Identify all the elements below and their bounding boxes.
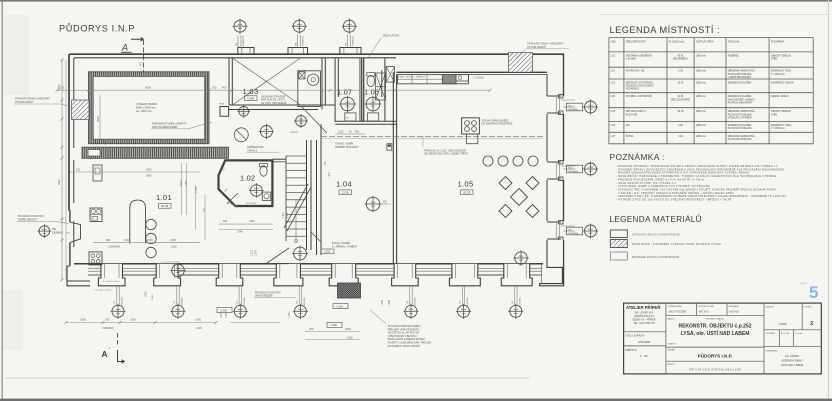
svg-text:3530: 3530 xyxy=(58,179,61,185)
svg-text:1.02: 1.02 xyxy=(240,174,255,183)
svg-text:400: 400 xyxy=(222,86,227,90)
svg-text:750: 750 xyxy=(114,301,116,304)
new hatched wall between 1.07/1.06 xyxy=(360,58,364,121)
svg-text:1500(845): 1500(845) xyxy=(568,233,578,235)
svg-text:- POTRUBÍ Z PCE OD 100 VYÚSTÍ: - POTRUBÍ Z PCE OD 100 VYÚSTÍ DO VNĚJŠÍH… xyxy=(616,199,731,202)
svg-text:201: 201 xyxy=(140,61,143,66)
svg-text:3.080: 3.080 xyxy=(152,294,154,300)
svg-text:VYPRACOVAL: VYPRACOVAL xyxy=(667,305,682,308)
svg-text:TVÁRNICE: TVÁRNICE xyxy=(352,35,355,46)
vertical dim 3000 left of pool xyxy=(99,95,101,140)
stove island with 4 burners xyxy=(462,118,480,134)
svg-text:5.30: 5.30 xyxy=(678,71,683,73)
svg-text:3000: 3000 xyxy=(96,116,100,122)
1.06 shelving X rect xyxy=(376,73,386,100)
svg-text:KUCHYNĚ: KUCHYNĚ xyxy=(626,113,638,116)
title block outer box xyxy=(624,303,822,374)
staircase arrow xyxy=(295,200,297,243)
vertical dim lines mid 1.01 xyxy=(181,163,183,215)
pilaster x=156.2 xyxy=(154,264,181,286)
svg-text:2.350: 2.350 xyxy=(287,212,289,218)
kitchen counter band xyxy=(398,75,469,84)
pilaster x=218.7 xyxy=(216,264,243,286)
svg-text:2860 mm: 2860 mm xyxy=(696,55,706,57)
svg-text:A SAUNA: A SAUNA xyxy=(626,58,637,61)
svg-text:750: 750 xyxy=(105,318,110,322)
svg-text:1.200: 1.200 xyxy=(289,312,291,318)
svg-text:1000: 1000 xyxy=(221,312,223,318)
dim 150 2830 2600 xyxy=(70,171,200,173)
dashed beam line xyxy=(321,135,543,137)
svg-text:OBJEKT: OBJEKT xyxy=(667,343,676,345)
room 1.02 walls xyxy=(219,160,273,206)
svg-text:POUŽITÝ Z LOMOVÉHO KAM. TRO: POUŽITÝ Z LOMOVÉHO KAM. TROKULE xyxy=(388,342,432,345)
svg-text:1054/1999: 1054/1999 xyxy=(638,340,651,344)
1.01 stove unit xyxy=(89,252,102,265)
svg-text:DŘEVĚNÁ LAMINÁTOVÁ: DŘEVĚNÁ LAMINÁTOVÁ xyxy=(728,135,755,138)
svg-text:1.07: 1.07 xyxy=(610,135,615,138)
svg-text:17.0/1600: 17.0/1600 xyxy=(473,76,484,79)
svg-text:PLOVOUCÍ PODLAHA: PLOVOUCÍ PODLAHA xyxy=(728,138,752,141)
svg-text:1.01: 1.01 xyxy=(610,54,615,57)
svg-text:STAVEBNÍK: STAVEBNÍK xyxy=(766,350,778,353)
left margin scan shade xyxy=(3,15,29,95)
outer wall bottom-left corner xyxy=(67,266,90,286)
svg-text:LEGENDA MÍSTNOSTÍ :: LEGENDA MÍSTNOSTÍ : xyxy=(610,25,721,35)
material swatch bourane xyxy=(610,252,627,260)
1.01 fridge xyxy=(93,165,102,181)
sheet right faint border xyxy=(828,0,830,401)
svg-text:ŠATNA: ŠATNA xyxy=(626,135,634,138)
svg-text:KERAMICKÁ DLAŽBA: KERAMICKÁ DLAŽBA xyxy=(728,95,752,98)
elevation boxes xyxy=(333,304,348,309)
svg-text:1.04: 1.04 xyxy=(336,180,352,189)
svg-text:1450: 1450 xyxy=(195,318,201,322)
svg-text:5000: 5000 xyxy=(145,86,151,90)
svg-text:5: 5 xyxy=(809,283,818,302)
svg-text:OKNO OBEZDÍT: OKNO OBEZDÍT xyxy=(255,295,274,298)
title block grid xyxy=(624,303,822,374)
svg-text:150: 150 xyxy=(76,168,81,171)
svg-text:1.07: 1.07 xyxy=(337,88,352,97)
svg-text:PŘELOMIT HORNÍ PODESTU,: PŘELOMIT HORNÍ PODESTU, xyxy=(388,328,420,331)
svg-text:VE STÁV. PROVEDENÍ: VE STÁV. PROVEDENÍ xyxy=(261,102,287,105)
svg-text:VYBETONOVAT J BETONU,: VYBETONOVAT J BETONU, xyxy=(388,335,418,338)
svg-text:2100: 2100 xyxy=(196,326,202,330)
svg-text:STUPEŇ: STUPEŇ xyxy=(766,332,775,335)
sheet faint top-right rule xyxy=(600,14,829,16)
svg-text:1.03: 1.03 xyxy=(243,87,259,96)
svg-text:+PODLAH. VYTÁPĚNÍ: +PODLAH. VYTÁPĚNÍ xyxy=(728,116,752,119)
bottom leader target x=118 xyxy=(116,286,118,306)
svg-text:OBSAH: OBSAH xyxy=(667,349,675,352)
staircase break line xyxy=(284,184,308,228)
svg-text:1500(845): 1500(845) xyxy=(568,109,578,111)
pilaster x=451.9 xyxy=(449,264,480,286)
window bricked-up hatch top right xyxy=(509,53,533,73)
svg-text:1/2000: 1/2000 xyxy=(779,323,787,326)
svg-text:VODÁRNOU: VODÁRNOU xyxy=(626,88,640,91)
outer wall left entry splayed opening xyxy=(70,222,81,242)
svg-text:DATUM: DATUM xyxy=(766,306,774,309)
svg-text:NOVÉ ZDIVO - Z POROBET. T: NOVÉ ZDIVO - Z POROBET. TVÁRNIC YTONG NA… xyxy=(632,243,721,246)
door swing small near stairs xyxy=(311,232,321,242)
svg-text:ING.VLK: ING.VLK xyxy=(699,311,709,314)
svg-text:1.03: 1.03 xyxy=(610,82,615,85)
bottom-right corner block xyxy=(540,240,564,286)
material swatch nove xyxy=(610,240,627,248)
svg-text:3.04: 3.04 xyxy=(678,136,683,138)
window target in bottom wall xyxy=(170,263,186,279)
svg-text:1300(845): 1300(845) xyxy=(304,297,306,306)
svg-text:2600 mm: 2600 mm xyxy=(696,111,706,113)
wall below 1.07/1.06 xyxy=(335,120,396,122)
svg-text:POČ. A4: POČ. A4 xyxy=(781,332,790,335)
svg-text:SVĚTLÁ VÝŠKA: SVĚTLÁ VÝŠKA xyxy=(696,41,714,44)
1.02 door swing xyxy=(227,193,238,204)
svg-text:1300(845): 1300(845) xyxy=(467,297,469,306)
svg-text:OBVODY OBKLAD: OBVODY OBKLAD xyxy=(771,110,791,113)
right wall window bay y=222 xyxy=(547,222,561,239)
svg-text:VESTAVBA S BAZÉNEM: VESTAVBA S BAZÉNEM xyxy=(626,54,652,57)
svg-text:1300(840): 1300(840) xyxy=(102,326,114,330)
svg-text:1.210: 1.210 xyxy=(251,249,254,256)
stove gray block xyxy=(442,75,456,84)
svg-text:2.50: 2.50 xyxy=(678,125,683,127)
svg-text:81.48: 81.48 xyxy=(161,204,168,208)
1.04 entry door swing xyxy=(266,248,289,264)
svg-text:1300(845): 1300(845) xyxy=(415,297,417,306)
bottom leader target x=411 xyxy=(409,286,411,306)
dim 1450 2100 xyxy=(165,242,200,244)
pilaster x=100.9 xyxy=(98,264,125,286)
1.06 wc bowl xyxy=(367,75,375,86)
1.03 equipment targets xyxy=(237,105,250,118)
svg-text:1300(845): 1300(845) xyxy=(52,233,63,235)
svg-text:750: 750 xyxy=(512,301,514,304)
svg-text:2830: 2830 xyxy=(146,168,152,171)
svg-text:43.41: 43.41 xyxy=(678,55,685,57)
svg-text:KERAMICKÝ SOKL: KERAMICKÝ SOKL xyxy=(771,124,792,127)
1.01 circles (stools) xyxy=(146,219,156,229)
left outer vertical dim line xyxy=(61,60,63,280)
svg-text:10.16: 10.16 xyxy=(678,83,685,85)
svg-text:1650: 1650 xyxy=(249,220,255,223)
svg-text:-1.380: -1.380 xyxy=(336,305,343,308)
svg-text:ZALOŽIT DO M., API ROZ VM.: ZALOŽIT DO M., API ROZ VM. xyxy=(388,332,420,335)
svg-text:STP. Ú. P.P. 3.20.21.75.76.77: STP. Ú. P.P. 3.20.21.75.76.77.82. 149, k… xyxy=(689,369,741,372)
wall 1.02 to staircase xyxy=(272,158,286,160)
svg-text:-1.380: -1.380 xyxy=(330,324,337,327)
pilaster x=503.8 xyxy=(501,264,532,286)
svg-text:1300(845): 1300(845) xyxy=(182,297,184,306)
svg-text:1.01: 1.01 xyxy=(156,193,172,202)
svg-text:12.08: 12.08 xyxy=(342,191,349,195)
bottom dim chain door xyxy=(230,322,280,324)
svg-text:VÝKR.Č: VÝKR.Č xyxy=(804,306,813,309)
svg-text:2800 mm: 2800 mm xyxy=(696,83,706,85)
right window target y=231 xyxy=(564,230,576,232)
svg-text:1300(845): 1300(845) xyxy=(122,297,124,306)
room 1.07 left wall xyxy=(334,58,336,122)
1.06 floor target xyxy=(365,96,382,113)
svg-text:JIZERSKÁ 2898/7: JIZERSKÁ 2898/7 xyxy=(781,359,803,363)
svg-text:2860 mm: 2860 mm xyxy=(696,125,706,127)
svg-text:DB VĚNCE NAD STÁV. KLENBY TŘÍD: DB VĚNCE NAD STÁV. KLENBY TŘÍDIT xyxy=(424,153,468,156)
svg-text:KOUPELNA + WC: KOUPELNA + WC xyxy=(626,70,645,73)
svg-text:1.05: 1.05 xyxy=(458,180,474,189)
svg-text:750: 750 xyxy=(460,301,462,304)
svg-text:STĚN: STĚN xyxy=(771,58,778,61)
svg-text:PODLAHA: PODLAHA xyxy=(728,41,740,44)
svg-text:2000: 2000 xyxy=(345,327,351,331)
svg-text:V = 1500 mm: V = 1500 mm xyxy=(771,128,785,130)
1.03 door pillar xyxy=(220,107,229,117)
svg-text:5 x 1.614 / 1.30 m: 5 x 1.614 / 1.30 m xyxy=(94,290,112,292)
svg-text:1970: 1970 xyxy=(58,84,61,90)
svg-text:2 x 1.6.14 / 1.75 m: 2 x 1.6.14 / 1.75 m xyxy=(161,261,179,263)
1.02 wc bowl xyxy=(260,166,267,176)
room 1.03 bottom wall xyxy=(229,104,335,106)
svg-text:TECHNOLOGIÍ A DOMÁCÍ: TECHNOLOGIÍ A DOMÁCÍ xyxy=(626,85,654,88)
sheet left border xyxy=(1,0,3,401)
svg-text:PŮDORYS I.N.P.: PŮDORYS I.N.P. xyxy=(698,352,733,359)
svg-text:REKONSTR. OBJEKTU č.p.252: REKONSTR. OBJEKTU č.p.252 xyxy=(678,323,751,329)
svg-text:62.78: 62.78 xyxy=(678,111,685,113)
svg-text:2600: 2600 xyxy=(146,175,152,178)
svg-text:3.380: 3.380 xyxy=(247,96,254,100)
svg-text:1.06: 1.06 xyxy=(610,124,615,127)
svg-text:PŮDORYS I.N.P: PŮDORYS I.N.P xyxy=(59,23,135,34)
svg-text:5000 x 3000 mm: 5000 x 3000 mm xyxy=(136,105,155,109)
svg-text:750: 750 xyxy=(237,301,239,304)
svg-text:OZN: OZN xyxy=(611,41,616,44)
svg-text:7240-6.2: 7240-6.2 xyxy=(247,149,257,152)
svg-text:1 : 50: 1 : 50 xyxy=(640,354,648,358)
svg-text:2: 2 xyxy=(810,321,813,327)
1.02 floor target xyxy=(249,183,264,198)
svg-text:BEZ BAZÉNU: BEZ BAZÉNU xyxy=(673,58,688,61)
svg-text:62.78: 62.78 xyxy=(463,191,470,195)
svg-text:OBÝVACÍ POKOJ +: OBÝVACÍ POKOJ + xyxy=(626,110,647,113)
chimney crosshatch block at bottom wall xyxy=(338,283,361,298)
svg-text:+ DRES PROVEDENÍ: + DRES PROVEDENÍ xyxy=(728,76,751,79)
svg-text:MĚŘÍTKO: MĚŘÍTKO xyxy=(626,349,637,352)
svg-text:A: A xyxy=(121,43,128,53)
svg-text:DŘEVĚNÁ LAMINÁTOVÁ: DŘEVĚNÁ LAMINÁTOVÁ xyxy=(728,110,755,113)
svg-text:1.970: 1.970 xyxy=(255,249,258,256)
svg-text:PLOVOUCÍ PODLAHA: PLOVOUCÍ PODLAHA xyxy=(728,73,752,76)
svg-text:KERAMICKÁ DLAŽBA: KERAMICKÁ DLAŽBA xyxy=(728,124,752,127)
shaft between 1.06 and 1.05 xyxy=(386,67,394,83)
svg-text:150: 150 xyxy=(104,140,107,145)
svg-text:ÚČEL MÍSTNOSTI: ÚČEL MÍSTNOSTI xyxy=(626,41,646,44)
svg-text:WC: WC xyxy=(626,125,630,127)
svg-text:1120: 1120 xyxy=(338,131,344,134)
svg-text:POZNÁMKA: POZNÁMKA xyxy=(771,41,785,44)
dining table diamonds xyxy=(511,189,528,206)
svg-text:KERAMICKÝ SOKL: KERAMICKÝ SOKL xyxy=(771,70,792,73)
svg-text:TEL. 0412/ 588 878: TEL. 0412/ 588 878 xyxy=(633,322,655,325)
svg-text:SCHVÁLIL: SCHVÁLIL xyxy=(728,305,739,308)
right window target y=107 xyxy=(564,106,576,108)
svg-text:2540: 2540 xyxy=(237,230,243,234)
svg-text:1.210: 1.210 xyxy=(283,212,285,218)
sink block xyxy=(456,75,469,81)
svg-text:PRŮBĚH SPOLEČNÝ: PRŮBĚH SPOLEČNÝ xyxy=(335,146,359,149)
bottom dim chain right xyxy=(305,331,360,333)
bottom dim chain left xyxy=(66,322,216,324)
svg-text:1.050: 1.050 xyxy=(226,312,228,318)
svg-text:PLOVOUCÍ PODLAHA: PLOVOUCÍ PODLAHA xyxy=(728,127,752,130)
svg-text:Jan VÁVRA: Jan VÁVRA xyxy=(785,354,799,358)
svg-text:V = 2000 mm: V = 2000 mm xyxy=(771,74,785,76)
svg-text:2860 mm: 2860 mm xyxy=(696,71,706,73)
svg-text:ATELIER PŘÍPEŘ: ATELIER PŘÍPEŘ xyxy=(626,305,660,310)
svg-text:1450: 1450 xyxy=(170,238,176,242)
room 1.03 right wall xyxy=(321,58,323,110)
svg-text:OBVODY OBKLAD: OBVODY OBKLAD xyxy=(771,54,791,57)
svg-text:TVÁRNICE: TVÁRNICE xyxy=(242,35,245,46)
pool hatched walls xyxy=(89,72,210,144)
bricked-up window hatch left xyxy=(72,100,90,119)
svg-text:1.500: 1.500 xyxy=(388,299,391,306)
svg-text:DŘEVĚNÁ LAMINÁTOVÁ: DŘEVĚNÁ LAMINÁTOVÁ xyxy=(728,70,755,73)
electrical box xyxy=(387,144,392,151)
room 1.03 left wall xyxy=(228,58,230,105)
svg-text:KERAM. SOKLÍK: KERAM. SOKLÍK xyxy=(771,95,789,98)
svg-text:S 1 PŘESKL. VYMĚNIT: S 1 PŘESKL. VYMĚNIT xyxy=(332,245,358,248)
1.07 toilet xyxy=(345,113,356,121)
svg-text:900: 900 xyxy=(106,238,111,242)
svg-text:BOURANÉ ZDIVO A KONSTRUKCE: BOURANÉ ZDIVO A KONSTRUKCE xyxy=(632,256,679,259)
svg-text:1000: 1000 xyxy=(145,291,148,297)
right window target y=169 xyxy=(564,168,576,170)
room 1.06 right wall xyxy=(384,58,386,121)
svg-text:1500(845): 1500(845) xyxy=(568,171,578,173)
svg-text:1.06: 1.06 xyxy=(364,88,379,97)
outer wall top xyxy=(69,53,564,55)
svg-text:KK 8.0000: KK 8.0000 xyxy=(246,203,257,205)
svg-text:2100: 2100 xyxy=(171,245,177,249)
svg-text:DO PODESTY ZNOVU POUŽÍT: DO PODESTY ZNOVU POUŽÍT xyxy=(388,345,421,348)
svg-text:KONTROLOVAL: KONTROLOVAL xyxy=(698,305,715,308)
sauna rounded enclosure xyxy=(130,200,146,244)
svg-text:830: 830 xyxy=(223,220,228,223)
bottom leader target x=515.8 xyxy=(514,286,516,306)
svg-text:200: 200 xyxy=(212,86,217,90)
pilaster x=276.3 xyxy=(274,264,303,286)
1.04 right wall (to 1.05) xyxy=(392,72,394,264)
material swatch stavajici xyxy=(610,230,627,238)
svg-text:DVEŘE OBNOVIT: DVEŘE OBNOVIT xyxy=(18,218,38,221)
svg-text:TBL: TBL xyxy=(52,229,57,231)
bottom wall sill lines xyxy=(88,267,101,269)
1.07 floor target xyxy=(339,96,356,113)
svg-text:2860 mm: 2860 mm xyxy=(696,136,706,138)
svg-text:DO VNĚJŠÍHO PROSTŘEDÍ: DO VNĚJŠÍHO PROSTŘEDÍ xyxy=(482,123,513,126)
section marker A-prime bottom xyxy=(117,333,119,347)
dining chairs circles xyxy=(483,156,493,166)
window target bottom right xyxy=(513,250,529,266)
svg-text:NA SCHODIŠTI LAMINÁT: NA SCHODIŠTI LAMINÁT xyxy=(728,98,756,101)
svg-text:OTVOR ZAZDÍT: OTVOR ZAZDÍT xyxy=(15,101,34,104)
svg-text:600: 600 xyxy=(355,131,360,134)
svg-text:A: A xyxy=(102,350,108,359)
svg-text:NIKA: NIKA xyxy=(219,103,225,106)
outer wall left xyxy=(68,54,70,210)
pilaster x=331.7 xyxy=(329,264,358,286)
svg-text:CHODBA + SCHODIŠTĚ: CHODBA + SCHODIŠTĚ xyxy=(626,95,653,98)
svg-text:POZNÁMKA :: POZNÁMKA : xyxy=(610,152,665,162)
chimney stack x=237.8 xyxy=(238,48,254,55)
svg-text:ÚSTÍ NAD LABEM: ÚSTÍ NAD LABEM xyxy=(781,363,804,367)
1.01 kitchenette xyxy=(90,208,102,222)
svg-text:1.05: 1.05 xyxy=(610,110,615,113)
svg-text:PLOVOUCÍ PODLAHA: PLOVOUCÍ PODLAHA xyxy=(728,113,752,116)
svg-text:300: 300 xyxy=(309,327,314,331)
svg-text:PROKLADANÁ KAMENNÁ ROVINA: PROKLADANÁ KAMENNÁ ROVINA xyxy=(388,338,426,341)
svg-text:5 x 1.614 / 1.30 m: 5 x 1.614 / 1.30 m xyxy=(103,281,120,283)
dim 830 1650 2540 xyxy=(219,223,274,225)
svg-text:1300(845): 1300(845) xyxy=(519,297,521,306)
svg-text:1300(845): 1300(845) xyxy=(244,297,246,306)
svg-text:1.02: 1.02 xyxy=(610,70,615,73)
svg-text:příloha: příloha xyxy=(800,283,807,285)
svg-text:OTVOR ZAZDÍT: OTVOR ZAZDÍT xyxy=(527,45,546,49)
dim row mid 1.01 xyxy=(93,242,195,244)
1.02 sink xyxy=(262,192,270,200)
svg-text:VENTILÁTOR: VENTILÁTOR xyxy=(383,34,399,38)
svg-text:STÁVAJÍCÍ ZDIVO A KONSTRUKC: STÁVAJÍCÍ ZDIVO A KONSTRUKCE xyxy=(632,233,680,236)
svg-text:2860 mm: 2860 mm xyxy=(696,96,706,98)
svg-text:MÍSTNOST S FILTRAČNÍ: MÍSTNOST S FILTRAČNÍ xyxy=(626,82,653,85)
right wall window bay y=96 xyxy=(547,96,561,113)
svg-text:HL. 1500 mm: HL. 1500 mm xyxy=(136,109,152,113)
svg-text:NÁZEV: NÁZEV xyxy=(667,317,675,320)
pilaster x=394.1 xyxy=(392,264,419,286)
1.04 floor target xyxy=(365,196,382,213)
svg-text:KOBEREC: KOBEREC xyxy=(728,55,740,57)
svg-text:ZÚŽENÍ: ZÚŽENÍ xyxy=(290,131,298,134)
svg-text:-0.380: -0.380 xyxy=(220,309,227,312)
room 1.03 diagonals xyxy=(232,58,300,105)
svg-text:ING.VYTEJČEK: ING.VYTEJČEK xyxy=(669,311,687,314)
svg-text:1300(845): 1300(845) xyxy=(108,245,120,249)
staircase treads xyxy=(286,155,307,157)
svg-text:KERAMICKÁ DLAŽBA: KERAMICKÁ DLAŽBA xyxy=(728,82,752,85)
chimney stack x=339.9 xyxy=(340,48,361,55)
svg-text:LYSÁ, okr. ÚSTÍ NAD LABEM: LYSÁ, okr. ÚSTÍ NAD LABEM xyxy=(681,329,750,337)
bottom leader target x=178 xyxy=(176,286,178,306)
svg-text:TVÁRNICE: TVÁRNICE xyxy=(302,35,305,46)
svg-text:STÁVAJÍCÍ KRUHOVÉ ANDĚLY,: STÁVAJÍCÍ KRUHOVÉ ANDĚLY, xyxy=(388,325,422,328)
bottom leader target x=300.4 xyxy=(298,286,300,306)
svg-text:PROJEKT STAVBY: PROJEKT STAVBY xyxy=(706,317,726,320)
svg-text:1.200: 1.200 xyxy=(381,299,384,306)
svg-text:24.51: 24.51 xyxy=(678,96,685,98)
new wall hatched band xyxy=(82,147,229,158)
chimney stack x=288 xyxy=(288,48,308,55)
svg-text:KERAMICKÝ SOKLÍK: KERAMICKÝ SOKLÍK xyxy=(771,82,794,85)
svg-text:MÍSTO: MÍSTO xyxy=(667,363,674,366)
svg-text:1660: 1660 xyxy=(130,318,136,322)
top dim line above pool xyxy=(57,89,490,91)
svg-text:2600: 2600 xyxy=(347,336,353,340)
svg-text:ČÍSLO ZAKÁZKY: ČÍSLO ZAKÁZKY xyxy=(626,335,646,338)
svg-text:PRAC. DESKA + SKŘÍŇKY: PRAC. DESKA + SKŘÍŇKY xyxy=(399,76,426,79)
svg-text:Č. kopie: Č. kopie xyxy=(795,332,804,335)
